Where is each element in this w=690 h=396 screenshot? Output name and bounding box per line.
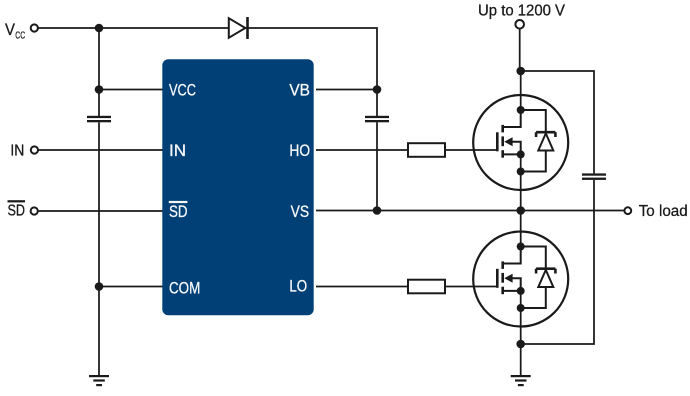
- svg-text:CC: CC: [15, 30, 25, 41]
- svg-text:To load: To load: [639, 203, 688, 220]
- svg-text:VCC: VCC: [169, 81, 196, 100]
- svg-text:LO: LO: [289, 276, 307, 295]
- svg-text:VB: VB: [289, 81, 310, 100]
- svg-text:IN: IN: [10, 143, 24, 160]
- svg-text:COM: COM: [169, 279, 200, 298]
- svg-text:V: V: [5, 21, 15, 39]
- svg-text:SD: SD: [169, 202, 188, 221]
- svg-text:IN: IN: [169, 141, 186, 160]
- svg-text:Up to 1200 V: Up to 1200 V: [478, 2, 566, 19]
- svg-text:VS: VS: [291, 202, 310, 221]
- svg-text:HO: HO: [289, 141, 310, 160]
- svg-text:SD: SD: [8, 203, 26, 220]
